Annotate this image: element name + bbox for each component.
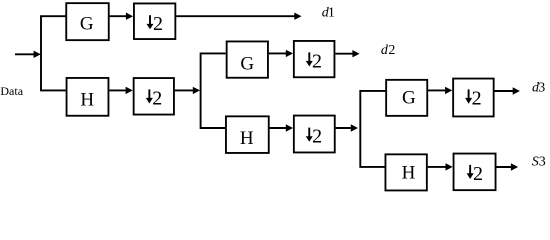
svg-text:2: 2 [153,13,163,35]
svg-text:d1: d1 [322,6,335,21]
svg-text:S3: S3 [532,155,546,170]
svg-text:2: 2 [472,88,482,110]
svg-text:G: G [240,53,254,74]
svg-text:H: H [402,162,416,183]
svg-text:2: 2 [312,50,322,72]
svg-text:2: 2 [473,163,483,185]
svg-text:G: G [402,88,416,109]
svg-text:H: H [80,90,94,111]
svg-text:G: G [80,13,94,34]
svg-text:d2: d2 [381,43,396,58]
svg-text:H: H [240,128,254,149]
svg-text:Data: Data [0,84,23,98]
svg-text:2: 2 [152,87,162,109]
svg-text:d3: d3 [532,81,545,96]
svg-text:2: 2 [312,126,322,148]
